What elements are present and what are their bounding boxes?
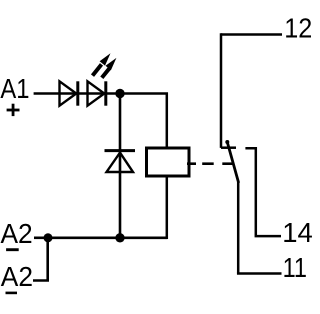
wire: 12 horizontal (221, 33, 282, 36)
mechanical link dash 2 (202, 162, 214, 165)
relay coil K1 (147, 148, 190, 176)
wire: bottom rail (48, 237, 167, 240)
polarity minus sign (first) (6, 248, 19, 251)
wire: A2 stub to junction (34, 237, 48, 240)
wire: freewheel diode branch (119, 94, 122, 238)
contact pivot blob (225, 140, 229, 144)
polarity plus sign (7, 104, 20, 116)
svg-text:A2: A2 (1, 217, 33, 249)
svg-text:A2: A2 (1, 260, 33, 292)
mechanical link dash 1 (187, 162, 196, 165)
wire: 12 vertical (220, 33, 223, 148)
contact: NC fixed contact stub 12 (221, 146, 236, 149)
contact armature (movable) (227, 142, 238, 182)
wire: 11 horizontal (237, 272, 282, 275)
LED emission arrow 1 (93, 53, 111, 75)
diode D1 (60, 81, 78, 105)
polarity minus sign (second) (6, 292, 18, 295)
junction node: A2 (44, 233, 53, 242)
contact: NO fixed contact stub 14 (245, 148, 281, 236)
svg-text:A1: A1 (0, 72, 29, 104)
wire: junction to coil branch top (120, 94, 167, 150)
svg-text:12: 12 (284, 12, 312, 44)
freewheel diode D3 (105, 151, 136, 172)
svg-text:14: 14 (282, 217, 313, 248)
junction node: bottom rail / diode branch (115, 233, 124, 242)
mechanical link dash 3 (222, 162, 233, 165)
LED diode D2 (88, 81, 106, 105)
LED emission arrow 2 (102, 58, 117, 78)
wire: coil bottom to bottom rail (166, 176, 169, 239)
wire: A1 lead (34, 92, 120, 95)
wire: armature to 11 vertical (237, 182, 240, 274)
svg-text:11: 11 (283, 253, 307, 283)
junction node: A1 branch (115, 89, 124, 98)
wire: second A2 stub (33, 238, 48, 281)
